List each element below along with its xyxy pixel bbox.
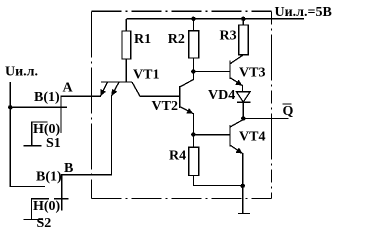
svg-text:B(1): B(1) <box>34 90 60 105</box>
transistor VT3 <box>230 55 243 92</box>
wire VT1 collector to VT2 base <box>140 95 180 97</box>
IC boundary dash-dot box left edge <box>91 11 93 198</box>
IC boundary dash-dot box horizontal edges <box>92 11 272 198</box>
svg-text:R1: R1 <box>134 32 151 47</box>
diode VD4 <box>237 92 251 119</box>
wire input A <box>61 96 101 133</box>
svg-text:B(1): B(1) <box>36 170 62 185</box>
Q overline <box>283 103 292 105</box>
power rail Uи.л. <box>126 18 304 20</box>
transistor VT1 (multi-emitter input) <box>100 82 140 96</box>
svg-text:B: B <box>64 161 73 176</box>
output wire Q <box>243 117 288 119</box>
svg-text:Q: Q <box>283 104 294 119</box>
svg-text:VD4: VD4 <box>208 88 235 103</box>
transistor VT2 <box>180 72 194 135</box>
switch S2 crossbar <box>54 198 69 200</box>
ground <box>238 186 250 214</box>
svg-text:VT4: VT4 <box>239 130 265 145</box>
VT4 emitter arrowhead <box>236 148 243 154</box>
svg-text:A: A <box>63 81 74 96</box>
svg-text:VT3: VT3 <box>239 66 265 81</box>
transistor VT4 <box>230 120 243 186</box>
wire B(1) feed to input A <box>10 106 67 108</box>
svg-text:S2: S2 <box>37 216 52 231</box>
svg-text:Uи.л.=5В: Uи.л.=5В <box>275 5 332 20</box>
VT2 emitter arrowhead <box>186 108 193 114</box>
VT3 emitter arrowhead <box>235 80 242 86</box>
svg-text:Uи.л.: Uи.л. <box>5 65 38 80</box>
svg-text:VT2: VT2 <box>152 99 178 114</box>
svg-text:R4: R4 <box>169 149 186 164</box>
switch S2 H(0) contact <box>24 199 50 220</box>
svg-text:H(0): H(0) <box>33 122 61 137</box>
switch S1 H(0) contact <box>24 122 48 146</box>
wire node base VT4 <box>193 134 230 136</box>
svg-text:R2: R2 <box>168 32 185 47</box>
svg-text:H(0): H(0) <box>33 199 61 214</box>
wire input B <box>62 96 112 211</box>
resistor R3 <box>239 19 249 55</box>
input rail Uи.л. left <box>10 82 45 187</box>
IC boundary dash-dot box right edge <box>271 11 273 198</box>
VT1 emitter arrowheads <box>100 89 117 96</box>
svg-text:S1: S1 <box>46 136 61 151</box>
resistor R2 <box>189 19 199 72</box>
wire node base VT3 <box>193 71 230 73</box>
svg-text:R3: R3 <box>220 29 237 44</box>
resistor R4 <box>189 135 243 186</box>
resistor R1 <box>122 19 131 82</box>
svg-text:VT1: VT1 <box>133 68 159 83</box>
